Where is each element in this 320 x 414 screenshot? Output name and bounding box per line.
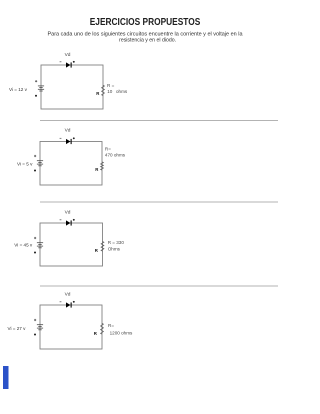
- svg-text:470 ohms: 470 ohms: [105, 152, 126, 157]
- svg-text:EJERCICIOS PROPUESTOS: EJERCICIOS PROPUESTOS: [90, 17, 201, 28]
- svg-text:Vi = 27 v: Vi = 27 v: [8, 326, 27, 331]
- svg-text:R=: R=: [105, 147, 111, 152]
- svg-text:Vd: Vd: [65, 52, 71, 58]
- svg-text:R =: R =: [107, 83, 115, 88]
- svg-text:ohms: ohms: [116, 89, 128, 94]
- svg-text:R: R: [94, 331, 98, 336]
- svg-text:R: R: [96, 91, 100, 96]
- svg-text:Vd: Vd: [65, 210, 71, 216]
- svg-text:R = 330: R = 330: [108, 240, 125, 245]
- svg-text:R: R: [95, 248, 99, 253]
- svg-text:10: 10: [107, 89, 113, 94]
- svg-text:Vd: Vd: [65, 292, 71, 298]
- svg-text:Vd: Vd: [65, 128, 71, 134]
- svg-text:R: R: [95, 167, 99, 172]
- svg-text:Ohms: Ohms: [108, 246, 121, 251]
- svg-text:Vi = 45 v: Vi = 45 v: [14, 242, 33, 247]
- svg-text:R=: R=: [108, 323, 114, 328]
- svg-text:Vi = 5 v: Vi = 5 v: [17, 162, 33, 167]
- svg-text:1200 ohms: 1200 ohms: [110, 331, 133, 336]
- svg-text:Vi = 12 v: Vi = 12 v: [9, 87, 28, 92]
- svg-text:resistencia y en el diodo.: resistencia y en el diodo.: [119, 37, 176, 43]
